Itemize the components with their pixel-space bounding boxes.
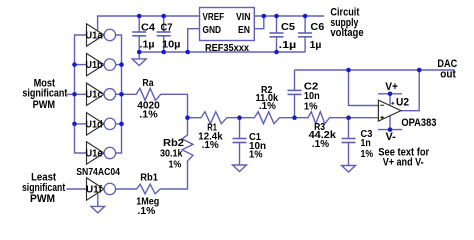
svg-text:GND: GND [203, 25, 222, 36]
svg-text:voltage: voltage [330, 27, 363, 39]
svg-text:V+: V+ [385, 81, 398, 93]
svg-text:EN: EN [238, 25, 250, 36]
svg-text:1µ: 1µ [310, 40, 322, 51]
svg-text:PWM: PWM [33, 99, 56, 111]
svg-text:Rb2: Rb2 [163, 138, 184, 149]
svg-text:U1c: U1c [85, 90, 103, 101]
svg-text:1n: 1n [361, 138, 371, 149]
svg-text:.1%: .1% [259, 101, 276, 112]
svg-text:Ra: Ra [142, 78, 154, 89]
svg-text:10n: 10n [304, 91, 320, 102]
svg-text:U1a: U1a [85, 30, 103, 41]
svg-text:.1%: .1% [139, 109, 158, 120]
svg-text:SN74AC04: SN74AC04 [76, 167, 120, 178]
svg-text:C6: C6 [310, 22, 324, 33]
svg-text:VREF: VREF [203, 12, 225, 23]
svg-text:C7: C7 [161, 23, 173, 34]
svg-text:30.1k: 30.1k [160, 149, 183, 160]
svg-text:C5: C5 [281, 22, 295, 33]
svg-text:PWM: PWM [30, 193, 55, 205]
svg-text:U1e: U1e [85, 148, 103, 159]
svg-text:V-: V- [386, 131, 397, 143]
svg-text:.1%: .1% [138, 206, 156, 217]
svg-text:.1%: .1% [312, 139, 329, 150]
svg-text:1%: 1% [361, 149, 374, 160]
svg-text:out: out [440, 69, 456, 81]
svg-text:.1µ: .1µ [279, 40, 297, 51]
svg-text:REF35xxx: REF35xxx [205, 43, 249, 54]
svg-text:10µ: 10µ [162, 40, 181, 51]
svg-text:V+ and V-: V+ and V- [383, 156, 424, 168]
svg-text:U1f: U1f [86, 184, 103, 195]
svg-text:significant: significant [22, 88, 67, 100]
svg-text:OPA383: OPA383 [401, 117, 436, 129]
svg-text:1%: 1% [249, 150, 263, 161]
svg-text:1%: 1% [169, 160, 182, 171]
svg-text:U1b: U1b [85, 60, 102, 71]
svg-text:.1µ: .1µ [140, 40, 155, 51]
svg-text:Rb1: Rb1 [140, 172, 158, 183]
svg-text:.1%: .1% [202, 140, 219, 151]
svg-text:1%: 1% [304, 102, 318, 113]
svg-text:VIN: VIN [236, 12, 251, 23]
svg-text:U2: U2 [396, 97, 409, 109]
svg-text:C4: C4 [141, 23, 155, 34]
svg-text:U1d: U1d [85, 119, 102, 130]
